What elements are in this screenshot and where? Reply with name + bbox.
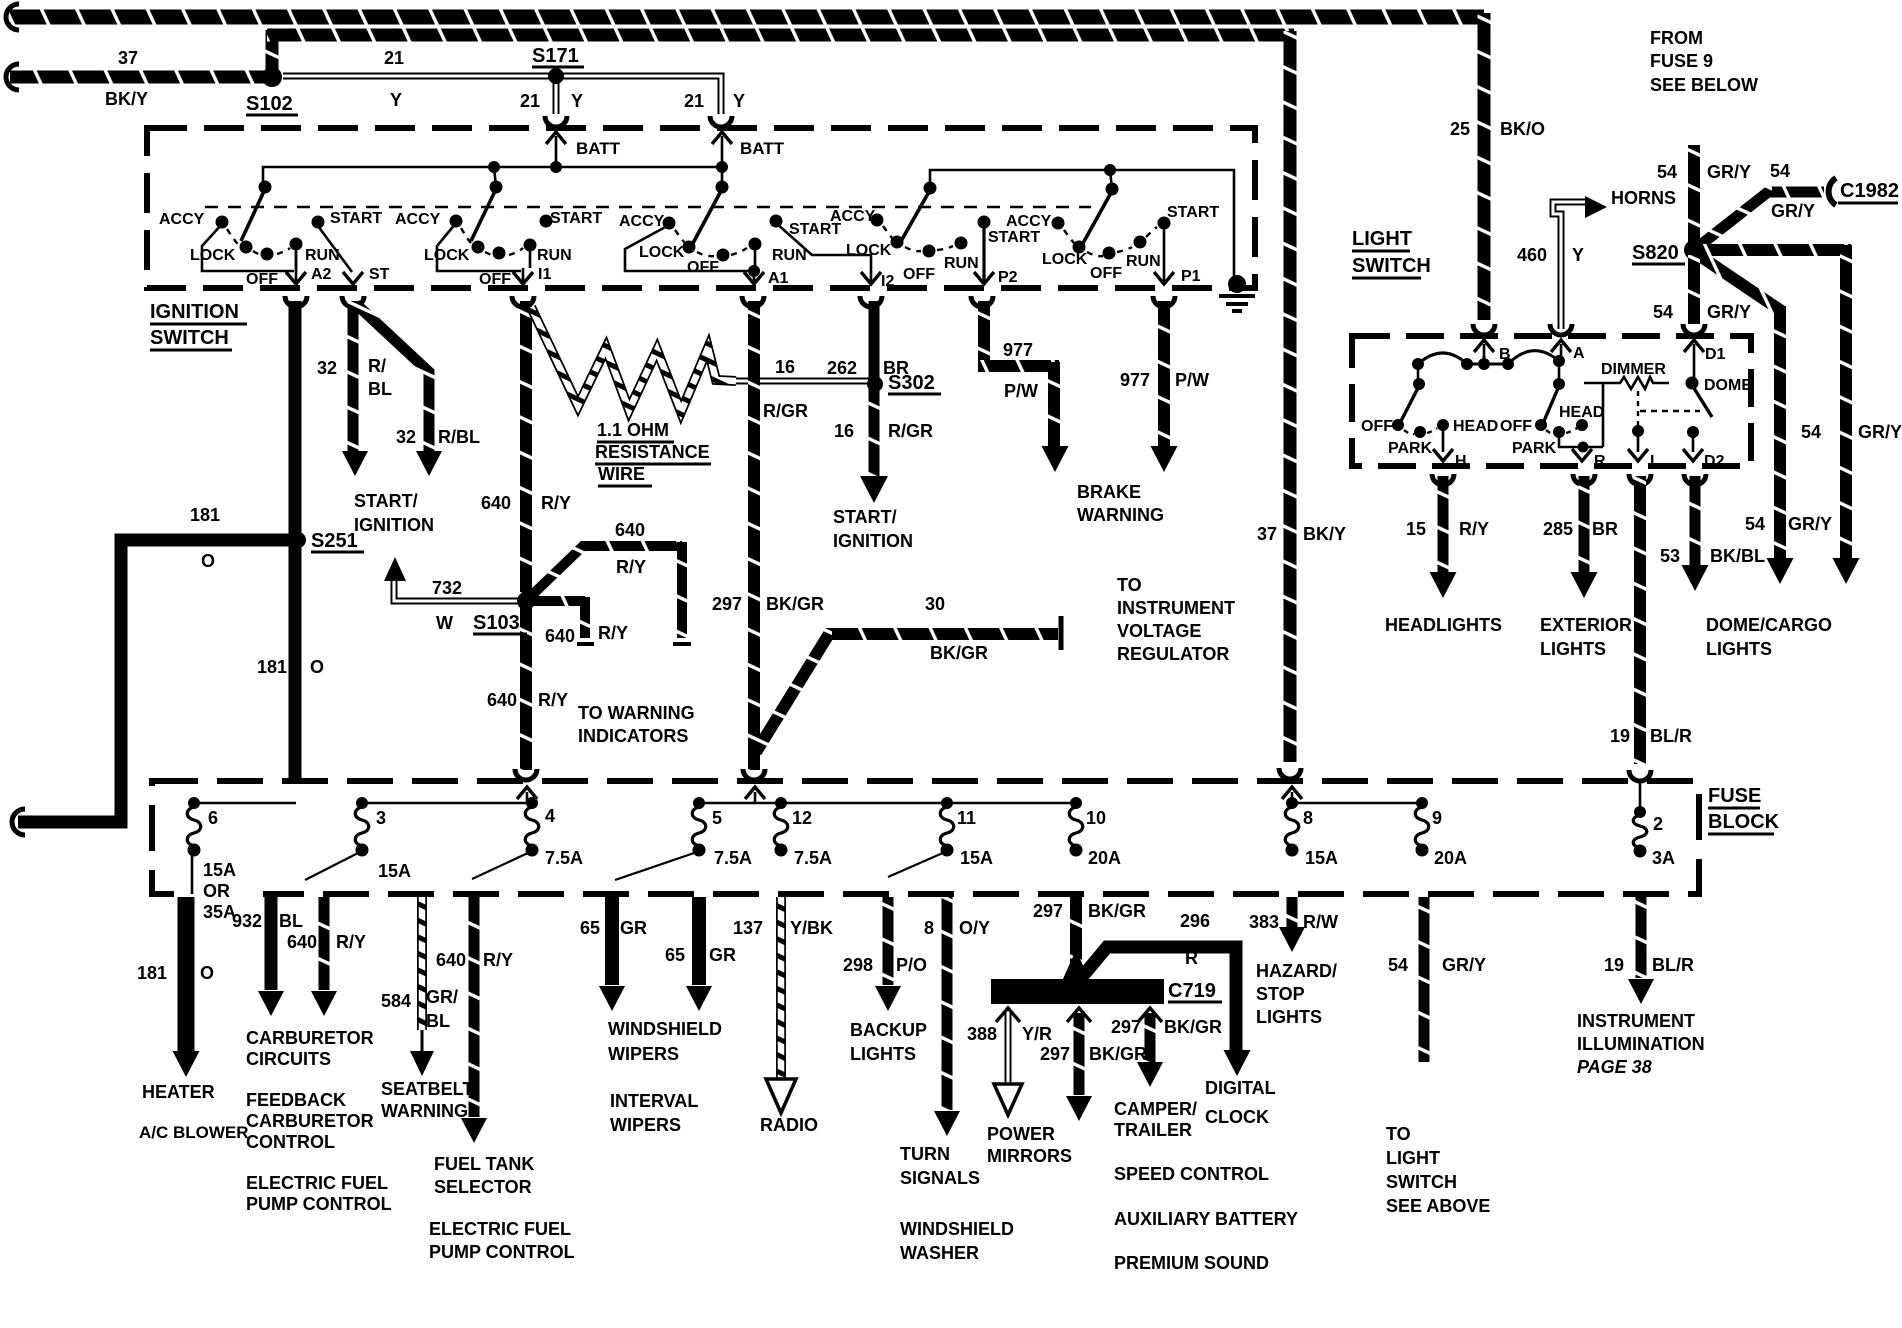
svg-text:SIGNALS: SIGNALS xyxy=(900,1168,980,1188)
G5 LOCK contact dot xyxy=(1073,241,1086,254)
connector cup at light switch D1 xyxy=(1683,324,1705,335)
svg-text:GR/Y: GR/Y xyxy=(1707,302,1751,322)
G5 dashed arc OFF-RUN xyxy=(1117,247,1132,252)
G4 ACCY contact dot xyxy=(871,214,884,227)
G3 ACCY contact dot xyxy=(663,217,676,230)
connector cup at light switch A xyxy=(1550,324,1572,335)
svg-text:LIGHTS: LIGHTS xyxy=(1706,639,1772,659)
connector C719 bar xyxy=(991,979,1164,1004)
G2 RUN contact dot xyxy=(524,239,537,252)
svg-text:R/Y: R/Y xyxy=(538,690,568,710)
connector cup at ignition terminal A1 xyxy=(742,296,764,307)
left pole drop xyxy=(1417,364,1420,384)
arrow down 54 GR/Y inner xyxy=(1767,558,1794,584)
left pole OFF dot xyxy=(1392,419,1404,431)
svg-text:HEAD: HEAD xyxy=(1453,418,1498,435)
svg-text:32: 32 xyxy=(317,358,337,378)
svg-text:SELECTOR: SELECTOR xyxy=(434,1177,532,1197)
svg-text:FUEL TANK: FUEL TANK xyxy=(434,1154,534,1174)
right pole dashed arcs xyxy=(1546,428,1577,434)
svg-text:START/: START/ xyxy=(354,491,418,511)
connector cup at ignition terminal ST xyxy=(342,296,364,307)
G2 dashed arc ACCY-LOCK xyxy=(461,228,473,245)
svg-text:START: START xyxy=(330,210,382,227)
rotor contact dots xyxy=(1412,358,1424,370)
svg-text:65: 65 xyxy=(665,945,685,965)
svg-text:297: 297 xyxy=(1040,1044,1070,1064)
svg-text:RESISTANCE: RESISTANCE xyxy=(595,442,710,462)
svg-text:SEE BELOW: SEE BELOW xyxy=(1650,75,1758,95)
light switch box xyxy=(1352,336,1751,466)
svg-text:STOP: STOP xyxy=(1256,984,1305,1004)
svg-text:640: 640 xyxy=(615,520,645,540)
connector cup at ignition terminal P1 xyxy=(1153,296,1175,307)
svg-text:DOME/CARGO: DOME/CARGO xyxy=(1706,615,1832,635)
svg-text:R/Y: R/Y xyxy=(1459,519,1489,539)
svg-text:P/W: P/W xyxy=(1004,381,1038,401)
svg-text:R: R xyxy=(1185,948,1198,968)
svg-text:11: 11 xyxy=(957,808,976,828)
svg-text:OFF: OFF xyxy=(1090,265,1122,282)
svg-text:R/GR: R/GR xyxy=(763,401,808,421)
wire 25 BK/O vertical drop to light switch B xyxy=(1478,13,1491,320)
svg-text:O: O xyxy=(310,657,324,677)
svg-text:Y/BK: Y/BK xyxy=(790,918,833,938)
svg-text:ACCY: ACCY xyxy=(1006,213,1052,230)
pointer line to fuse 11 xyxy=(888,852,945,877)
svg-text:4: 4 xyxy=(545,806,555,826)
svg-text:TRAILER: TRAILER xyxy=(1114,1120,1192,1140)
wire 53 BK/BL to dome cargo lights xyxy=(1690,476,1701,565)
connector cup at ignition terminal P2 xyxy=(971,296,993,307)
svg-text:6: 6 xyxy=(208,808,218,828)
svg-text:R/BL: R/BL xyxy=(438,427,480,447)
svg-text:CLOCK: CLOCK xyxy=(1205,1107,1269,1127)
svg-text:DIGITAL: DIGITAL xyxy=(1205,1078,1276,1098)
G1 dashed arc LOCK-OFF-RUN xyxy=(253,248,290,256)
wire 181 O from A2 down to fuse 6 xyxy=(289,301,302,784)
svg-text:640: 640 xyxy=(545,626,575,646)
svg-text:OFF: OFF xyxy=(903,266,935,283)
G4 blade xyxy=(900,190,930,243)
D1 stem to DOME xyxy=(1693,356,1696,381)
wire 19 BL/R to instrument illumination xyxy=(1636,897,1647,978)
svg-text:DIMMER: DIMMER xyxy=(1601,361,1666,378)
G2 START contact dot xyxy=(540,215,553,228)
arrow to start/ignition via 732 W xyxy=(384,557,406,581)
ground inside ignition switch box xyxy=(1228,275,1246,293)
fuse 2 xyxy=(1634,806,1646,818)
svg-text:CIRCUITS: CIRCUITS xyxy=(246,1049,331,1069)
svg-text:GR/Y: GR/Y xyxy=(1788,514,1832,534)
svg-text:C1982: C1982 xyxy=(1840,180,1899,202)
wire 297 BK/GR below C719 short xyxy=(1145,1013,1156,1062)
wire 298 P/O to backup lights xyxy=(883,897,894,985)
wire 16 R/GR below S302 xyxy=(869,386,880,477)
G4 LOCK contact dot xyxy=(891,236,904,249)
svg-text:53: 53 xyxy=(1660,546,1680,566)
svg-text:ACCY: ACCY xyxy=(159,211,205,228)
arrow down far right 54 GR/Y xyxy=(1833,558,1860,584)
svg-text:ACCY: ACCY xyxy=(395,211,441,228)
connector C1982 symbol xyxy=(1829,178,1836,205)
svg-text:HEATER: HEATER xyxy=(142,1082,215,1102)
svg-text:WARNING: WARNING xyxy=(1077,505,1164,525)
svg-text:I1: I1 xyxy=(538,266,551,283)
svg-text:297: 297 xyxy=(712,594,742,614)
G2 blade xyxy=(471,189,496,241)
svg-text:BLOCK: BLOCK xyxy=(1708,811,1780,833)
svg-text:SEATBELT: SEATBELT xyxy=(381,1079,473,1099)
svg-text:FROM: FROM xyxy=(1650,28,1703,48)
DOME contact dot xyxy=(1686,377,1699,390)
G3 RUN contact dot xyxy=(749,238,762,251)
svg-text:12: 12 xyxy=(792,808,812,828)
svg-text:640: 640 xyxy=(481,493,511,513)
svg-text:460: 460 xyxy=(1517,245,1547,265)
wire 383 R/W to hazard stop lights xyxy=(1287,897,1298,928)
svg-text:BK/GR: BK/GR xyxy=(766,594,824,614)
feed stub fuse 2 xyxy=(1639,782,1642,810)
wire top feed (hot at all times) horizontal run xyxy=(10,10,1484,25)
wire 32 R/BL right branch xyxy=(356,304,429,452)
svg-text:ELECTRIC FUEL: ELECTRIC FUEL xyxy=(429,1219,571,1239)
terminal A2 arrow xyxy=(295,252,298,281)
wire 65 GR to interval wipers xyxy=(692,897,706,985)
plug chevron under C719 at 388 xyxy=(996,1008,1020,1022)
svg-text:START: START xyxy=(1167,204,1219,221)
svg-text:8: 8 xyxy=(924,918,934,938)
svg-text:732: 732 xyxy=(432,578,462,598)
G1 RUN riser xyxy=(295,246,298,271)
G3 dashed arc ACCY-LOCK xyxy=(675,230,685,243)
svg-text:BK/GR: BK/GR xyxy=(1089,1044,1147,1064)
svg-text:BK/GR: BK/GR xyxy=(930,643,988,663)
G2 LOCK contact dot xyxy=(472,241,485,254)
svg-text:383: 383 xyxy=(1249,912,1279,932)
svg-text:LIGHTS: LIGHTS xyxy=(1540,639,1606,659)
svg-text:HEADLIGHTS: HEADLIGHTS xyxy=(1385,615,1502,635)
svg-text:HORNS: HORNS xyxy=(1611,188,1676,208)
svg-text:262: 262 xyxy=(827,358,857,378)
G5 ACCY contact dot xyxy=(1052,217,1065,230)
svg-text:16: 16 xyxy=(834,421,854,441)
svg-text:WIPERS: WIPERS xyxy=(610,1115,681,1135)
svg-text:GR/Y: GR/Y xyxy=(1771,201,1815,221)
svg-text:20A: 20A xyxy=(1434,848,1467,868)
svg-text:Y: Y xyxy=(733,91,745,111)
terminal I1 arrow xyxy=(522,268,525,281)
svg-text:19: 19 xyxy=(1604,955,1624,975)
wire 19 BL/R from light switch to fuse 2 xyxy=(1634,476,1646,764)
wire 16 R/GR from resistance wire to S302 xyxy=(736,378,870,385)
svg-text:54: 54 xyxy=(1657,162,1677,182)
svg-text:IGNITION: IGNITION xyxy=(354,515,434,535)
left pole dashed arcs xyxy=(1404,428,1437,434)
G4 RUN contact dot xyxy=(955,237,968,250)
svg-text:SPEED CONTROL: SPEED CONTROL xyxy=(1114,1164,1269,1184)
G3 OFF contact dot xyxy=(717,249,730,262)
svg-text:640: 640 xyxy=(487,690,517,710)
G5 OFF contact dot xyxy=(1103,247,1116,260)
dimmer left lead down xyxy=(1602,383,1605,447)
svg-text:BL: BL xyxy=(368,379,392,399)
svg-text:P1: P1 xyxy=(1181,268,1201,285)
wire 181 O from fuse 6 to heater xyxy=(178,897,195,1051)
svg-text:ACCY: ACCY xyxy=(619,213,665,230)
svg-text:296: 296 xyxy=(1180,911,1210,931)
G2 RUN riser xyxy=(529,247,532,268)
right pole drop xyxy=(1558,363,1561,384)
fuse 3 xyxy=(356,797,368,809)
svg-text:R/Y: R/Y xyxy=(483,950,513,970)
svg-text:BL/R: BL/R xyxy=(1650,726,1692,746)
svg-text:WIRE: WIRE xyxy=(598,464,645,484)
G5 START contact dot xyxy=(978,216,991,229)
G3 START link to I2 terminal xyxy=(776,223,871,281)
fuse 10 xyxy=(1070,797,1082,809)
svg-text:640: 640 xyxy=(436,950,466,970)
svg-text:BATT: BATT xyxy=(576,139,621,158)
svg-text:S820: S820 xyxy=(1632,242,1679,264)
svg-text:TO: TO xyxy=(1386,1124,1411,1144)
svg-text:RUN: RUN xyxy=(772,247,807,264)
terminal D1 arrow xyxy=(1693,344,1696,356)
dimmer dashed wiper xyxy=(1637,391,1639,428)
svg-text:7.5A: 7.5A xyxy=(714,848,752,868)
terminal R arrow xyxy=(1572,449,1592,461)
G6 START contact dot xyxy=(1158,217,1171,230)
svg-text:BK/GR: BK/GR xyxy=(1164,1017,1222,1037)
wire 137 Y/BK to radio xyxy=(776,897,786,1080)
svg-text:388: 388 xyxy=(967,1024,997,1044)
wire 15 R/Y to headlights xyxy=(1438,476,1449,572)
svg-text:640: 640 xyxy=(287,932,317,952)
svg-text:15A: 15A xyxy=(378,861,411,881)
svg-text:CARBURETOR: CARBURETOR xyxy=(246,1111,374,1131)
svg-text:OFF: OFF xyxy=(1500,418,1532,435)
svg-text:BATT: BATT xyxy=(740,139,785,158)
svg-text:977: 977 xyxy=(1003,340,1033,360)
svg-text:BL/R: BL/R xyxy=(1652,955,1694,975)
switch feed bus right segment xyxy=(930,170,1234,281)
svg-text:BRAKE: BRAKE xyxy=(1077,482,1141,502)
wire 262 BR from I2 to S302 xyxy=(869,301,880,382)
splice S820 xyxy=(1684,240,1704,260)
svg-text:D2: D2 xyxy=(1704,453,1725,470)
svg-text:37: 37 xyxy=(118,48,138,68)
end bar of 30 BK/GR xyxy=(1059,616,1064,650)
G1 RUN contact dot xyxy=(290,238,303,251)
svg-text:54: 54 xyxy=(1770,161,1790,181)
svg-text:7.5A: 7.5A xyxy=(545,848,583,868)
svg-text:37: 37 xyxy=(1257,524,1277,544)
svg-text:21: 21 xyxy=(520,91,540,111)
wire 732 W to start/ignition xyxy=(394,581,518,601)
svg-text:FUSE: FUSE xyxy=(1708,785,1761,807)
pivot dot G2 xyxy=(490,181,503,194)
junction dot on bus at x722 xyxy=(716,161,728,173)
wire 297 BK/GR from fuse 10 to C719 xyxy=(1070,897,1082,975)
end bar of short right branch xyxy=(577,642,594,646)
G2 ACCY contact dot xyxy=(450,215,463,228)
right pole PARK dot xyxy=(1553,426,1565,438)
splice S171 xyxy=(548,68,564,84)
svg-text:BK/Y: BK/Y xyxy=(1303,524,1346,544)
entry arrow at fuse 4 xyxy=(526,792,529,802)
G1 ACCY contact dot xyxy=(216,216,229,229)
svg-text:MIRRORS: MIRRORS xyxy=(987,1146,1072,1166)
fuse 6 lower stem xyxy=(191,852,194,894)
svg-text:30: 30 xyxy=(925,594,945,614)
svg-text:GR: GR xyxy=(620,918,647,938)
svg-text:R/Y: R/Y xyxy=(598,623,628,643)
svg-text:BK/O: BK/O xyxy=(1500,119,1545,139)
wire 932 BL to carburetor circuits xyxy=(265,897,278,990)
svg-text:54: 54 xyxy=(1745,514,1765,534)
left pole pivot dot xyxy=(1413,378,1425,390)
svg-text:R: R xyxy=(1594,453,1606,470)
svg-text:10: 10 xyxy=(1086,808,1106,828)
svg-text:INTERVAL: INTERVAL xyxy=(610,1091,698,1111)
wire 640 R/Y branch upper right xyxy=(529,546,600,598)
svg-text:P/O: P/O xyxy=(896,955,927,975)
wire 54 GR/Y from fuse 9 to light switch xyxy=(1419,897,1430,1062)
svg-text:LIGHTS: LIGHTS xyxy=(1256,1007,1322,1027)
svg-text:INDICATORS: INDICATORS xyxy=(578,726,688,746)
svg-text:20A: 20A xyxy=(1088,848,1121,868)
connector cup at terminal D2 output xyxy=(1684,474,1706,485)
svg-text:OR: OR xyxy=(203,881,230,901)
svg-text:START: START xyxy=(988,229,1040,246)
svg-text:S251: S251 xyxy=(311,530,358,552)
BATT terminal arrow 1 xyxy=(555,136,558,167)
wire 65 GR to windshield wipers xyxy=(605,897,619,985)
junction dot on right bus at x1110 xyxy=(1104,164,1116,176)
fuse 9 xyxy=(1416,797,1428,809)
connector cup at fuse block entry 297 xyxy=(743,769,765,780)
pivot dot G3 xyxy=(716,181,729,194)
svg-text:S171: S171 xyxy=(532,45,579,67)
svg-text:HAZARD/: HAZARD/ xyxy=(1256,961,1337,981)
svg-text:HEAD: HEAD xyxy=(1559,404,1604,421)
svg-text:START: START xyxy=(550,210,602,227)
svg-text:DOME: DOME xyxy=(1704,377,1752,394)
svg-text:GR/: GR/ xyxy=(426,987,458,1007)
svg-text:LIGHT: LIGHT xyxy=(1352,228,1412,250)
svg-text:R/GR: R/GR xyxy=(888,421,933,441)
light switch rotor arcs xyxy=(1418,351,1561,364)
svg-text:OFF: OFF xyxy=(1361,418,1393,435)
svg-text:OFF: OFF xyxy=(246,271,278,288)
terminal P2 riser and arrow xyxy=(982,224,985,281)
wire 296 R to digital clock xyxy=(1082,947,1236,1050)
terminal A arrow xyxy=(1560,344,1563,356)
G5 dashed arc LOCK-OFF xyxy=(1087,252,1103,256)
svg-text:54: 54 xyxy=(1388,955,1408,975)
svg-text:RUN: RUN xyxy=(1126,253,1161,270)
svg-text:R/Y: R/Y xyxy=(336,932,366,952)
svg-text:15: 15 xyxy=(1406,519,1426,539)
wire 21 Y from S102 to BATT feeds xyxy=(283,76,721,114)
svg-text:181: 181 xyxy=(137,963,167,983)
left pole HEAD dot xyxy=(1437,419,1449,431)
svg-text:3: 3 xyxy=(376,808,386,828)
svg-text:65: 65 xyxy=(580,918,600,938)
splice S102 xyxy=(262,67,282,87)
junction dot on bus at x494 xyxy=(488,161,500,173)
svg-text:BK/Y: BK/Y xyxy=(105,89,148,109)
G1 OFF contact dot xyxy=(261,248,274,261)
pivot dot G1 xyxy=(259,181,272,194)
svg-text:54: 54 xyxy=(1801,422,1821,442)
wire 584 GR/BL to seatbelt warning xyxy=(417,897,427,1030)
wire 54 GR/Y right run from S820 xyxy=(1699,244,1851,256)
wire 37 BK/Y upper horizontal run from S102 to right side xyxy=(266,30,279,74)
wire 297 BK/GR below C719 long xyxy=(1074,1013,1085,1095)
svg-text:O: O xyxy=(200,963,214,983)
svg-text:Y: Y xyxy=(390,90,402,110)
svg-text:GR/Y: GR/Y xyxy=(1858,422,1902,442)
svg-text:7.5A: 7.5A xyxy=(794,848,832,868)
fuse block box xyxy=(152,781,1699,894)
svg-text:2: 2 xyxy=(1653,814,1663,834)
svg-text:I: I xyxy=(1650,453,1654,470)
splice S103 dot overlay xyxy=(517,592,535,610)
connector cup at ignition terminal A2 xyxy=(285,296,307,307)
svg-text:137: 137 xyxy=(733,918,763,938)
terminal P1 riser and arrow xyxy=(1163,225,1166,281)
G5 RUN contact dot xyxy=(1134,236,1147,249)
svg-text:TO WARNING: TO WARNING xyxy=(578,703,695,723)
svg-text:19: 19 xyxy=(1610,726,1630,746)
G5 blade xyxy=(1082,191,1112,245)
G4 dashed arc LOCK-OFF-RUN xyxy=(905,246,953,251)
svg-text:D1: D1 xyxy=(1705,346,1726,363)
pointer line to fuse 5 xyxy=(615,852,697,880)
right pole HEAD dot xyxy=(1576,419,1588,431)
G2 OFF contact dot xyxy=(493,247,506,260)
svg-text:O: O xyxy=(201,551,215,571)
splice S302 xyxy=(867,376,883,392)
svg-text:FEEDBACK: FEEDBACK xyxy=(246,1090,346,1110)
svg-text:181: 181 xyxy=(190,505,220,525)
plug chevron under C719 at 297 short xyxy=(1138,1008,1162,1022)
svg-text:LOCK: LOCK xyxy=(190,247,236,264)
riser 21 Y under S171 xyxy=(553,80,560,114)
svg-text:C719: C719 xyxy=(1168,980,1216,1002)
svg-text:21: 21 xyxy=(384,48,404,68)
BATT terminal arrow 2 xyxy=(721,136,724,167)
svg-text:ILLUMINATION: ILLUMINATION xyxy=(1577,1034,1705,1054)
svg-text:AUXILIARY BATTERY: AUXILIARY BATTERY xyxy=(1114,1209,1298,1229)
left pole blade xyxy=(1401,386,1419,421)
right pole pivot dot xyxy=(1553,378,1565,390)
junction dot on bus at x559 xyxy=(550,161,562,173)
dimmer resistor xyxy=(1584,377,1669,389)
svg-text:GR/Y: GR/Y xyxy=(1707,162,1751,182)
G2 dashed arc LOCK-OFF-RUN xyxy=(485,248,523,256)
G3 START contact dot xyxy=(770,215,783,228)
svg-text:16: 16 xyxy=(775,357,795,377)
svg-text:SWITCH: SWITCH xyxy=(1352,255,1431,277)
svg-text:BL: BL xyxy=(426,1011,450,1031)
svg-text:932: 932 xyxy=(232,911,262,931)
svg-text:CONTROL: CONTROL xyxy=(246,1132,335,1152)
svg-text:PAGE 38: PAGE 38 xyxy=(1577,1057,1652,1077)
pivot dot P1 group xyxy=(1106,183,1119,196)
svg-text:WINDSHIELD: WINDSHIELD xyxy=(900,1219,1014,1239)
